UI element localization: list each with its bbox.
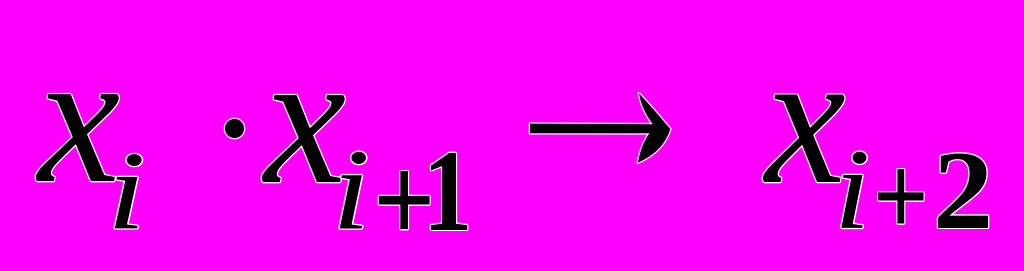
subscript i (second term) [332,132,370,248]
variable x (result term) [765,24,846,215]
subscript digit 2 (result term) [933,135,993,247]
subscript i (result term) [834,132,870,247]
variable x (second term) [264,25,346,215]
subscript plus sign (second term) [373,138,435,262]
subscript digit 1 (second term) [423,133,472,249]
subscript plus sign (result term) [873,138,929,255]
rightwards arrow (transition arrow) [524,87,676,169]
variable x (first term) [38,24,120,214]
subscript i (first term) [107,135,146,247]
multiplication dot operator [225,119,244,138]
